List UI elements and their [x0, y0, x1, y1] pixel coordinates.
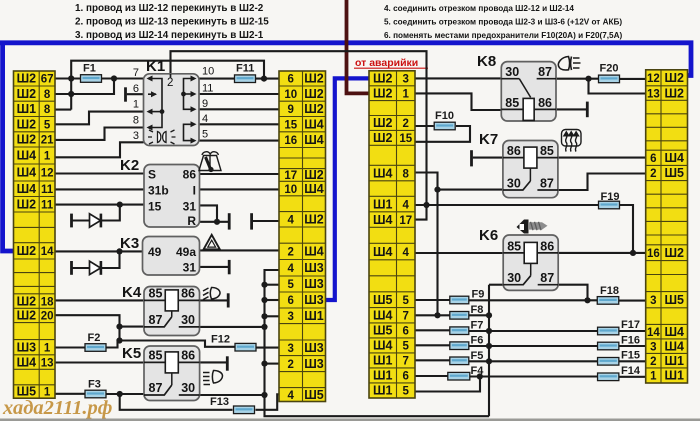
- node bus 5Ш3: [261, 282, 267, 288]
- wire Ш1-7 to F5: [415, 359, 450, 361]
- svg-text:Ш4: Ш4: [373, 308, 393, 322]
- wire branch to K4 pin87: [120, 326, 145, 328]
- svg-text:3: 3: [288, 311, 294, 323]
- fuse F20: [599, 63, 620, 83]
- wire K1 pin4 to 15-Ш4: [199, 123, 279, 125]
- wire Ш2-2 to F10: [415, 125, 434, 127]
- svg-text:Ш4: Ш4: [304, 117, 324, 131]
- svg-text:F13: F13: [210, 396, 229, 408]
- wire K1 pin5 to 16-Ш4: [199, 140, 279, 142]
- node junction K6-87: [584, 297, 590, 303]
- svg-text:31b: 31b: [148, 183, 169, 197]
- svg-text:Ш2: Ш2: [304, 213, 324, 227]
- wire K1 pin10 to F11: [199, 78, 234, 80]
- node junction Ш2-8 bus: [68, 91, 74, 97]
- wire branch to K7 pin30: [438, 189, 504, 191]
- svg-text:11: 11: [41, 199, 54, 211]
- node bus F8: [486, 312, 492, 318]
- svg-text:16: 16: [284, 135, 297, 147]
- svg-text:4: 4: [288, 263, 295, 275]
- svg-text:Ш2: Ш2: [17, 309, 37, 323]
- wire Ш5-1 to F3: [55, 393, 85, 395]
- wire K1 pin11 to 10-Ш2: [199, 93, 279, 95]
- svg-text:Ш5: Ш5: [373, 324, 393, 338]
- wire Ш1-8 to bus: [55, 109, 71, 111]
- relay K3 (turn signal relay): [120, 235, 200, 275]
- svg-text:F14: F14: [621, 365, 641, 377]
- svg-text:Ш2: Ш2: [304, 168, 324, 182]
- svg-text:Ш1: Ш1: [373, 354, 393, 368]
- svg-text:86: 86: [540, 239, 554, 253]
- svg-text:Ш2: Ш2: [304, 72, 324, 86]
- wire K2 pin86 to 17-Ш2: [200, 173, 280, 175]
- svg-text:6: 6: [650, 153, 656, 165]
- svg-text:85: 85: [507, 239, 521, 253]
- svg-text:30: 30: [505, 65, 519, 79]
- relay K1 (ignition/light switch block): [133, 58, 214, 146]
- svg-text:Ш4: Ш4: [664, 325, 684, 339]
- node bus K5-30: [261, 392, 267, 398]
- svg-text:6: 6: [288, 295, 294, 307]
- svg-text:31: 31: [183, 261, 197, 275]
- svg-text:11: 11: [41, 184, 54, 196]
- svg-text:F4: F4: [471, 365, 485, 377]
- svg-text:Ш2: Ш2: [664, 86, 684, 100]
- svg-text:1: 1: [44, 151, 51, 163]
- svg-text:5: 5: [202, 129, 208, 141]
- svg-text:Ш2: Ш2: [373, 116, 393, 130]
- svg-text:14: 14: [41, 246, 54, 258]
- svg-text:6. поменять местами предохрани: 6. поменять местами предохранители F10(2…: [384, 31, 623, 40]
- node junction K4-87 branch: [116, 324, 122, 330]
- svg-text:Ш5: Ш5: [664, 293, 684, 307]
- svg-text:8: 8: [44, 89, 51, 101]
- svg-text:K4: K4: [122, 284, 142, 301]
- terminal contact K2-31 left: [228, 213, 231, 229]
- svg-text:Ш3: Ш3: [304, 357, 324, 371]
- svg-text:11: 11: [202, 83, 213, 95]
- wire bus to 6-Ш3: [265, 299, 280, 301]
- svg-text:3: 3: [650, 295, 656, 307]
- wire F14 to 1-Ш1: [619, 376, 646, 378]
- wire F9 to F18 line: [469, 299, 598, 301]
- svg-text:87: 87: [149, 381, 163, 395]
- svg-text:Ш5: Ш5: [304, 388, 324, 402]
- wire Ш2-14 to K3 pin49: [55, 250, 144, 252]
- node junction F2 line: [116, 337, 122, 343]
- svg-text:49a: 49a: [176, 245, 196, 259]
- fuse F11: [235, 63, 256, 83]
- wire K5 pin86 to contact: [200, 361, 226, 363]
- svg-text:F19: F19: [601, 191, 620, 203]
- svg-text:Ш4: Ш4: [373, 339, 393, 353]
- wire K4 pin86 to contact: [200, 299, 228, 301]
- wire K4 pin30 to bus: [200, 326, 265, 328]
- svg-text:Ш3: Ш3: [304, 341, 324, 355]
- svg-text:K5: K5: [122, 345, 141, 362]
- node junction F20: [585, 76, 591, 82]
- wire Ш2-11 to K2 pin 15: [55, 204, 144, 206]
- svg-text:12: 12: [647, 73, 660, 85]
- wire F20 to 12-Ш2: [619, 78, 646, 80]
- svg-text:2: 2: [650, 168, 656, 180]
- wire Ш4-7 to F8: [415, 314, 450, 316]
- svg-text:K7: K7: [479, 131, 498, 148]
- wire fuse feed bus: [488, 285, 490, 417]
- svg-text:2: 2: [403, 118, 409, 130]
- svg-text:Ш4: Ш4: [373, 245, 393, 259]
- svg-text:85: 85: [149, 348, 163, 362]
- svg-text:86: 86: [181, 348, 195, 362]
- wire blue frame: top horizontal, right drop to Ш2-12, left drop to Ш2-14: [0, 43, 691, 76]
- wire K1 pin9 to 9-Ш2: [199, 108, 279, 110]
- svg-text:18: 18: [41, 296, 54, 308]
- wire K5 pin30 to bus: [200, 394, 265, 396]
- connector block middle-right: [369, 71, 415, 398]
- svg-text:F10: F10: [435, 110, 454, 122]
- fuse F10: [434, 110, 455, 130]
- terminal contact K5-86: [226, 356, 229, 370]
- svg-text:1: 1: [403, 88, 410, 100]
- svg-text:4: 4: [288, 215, 295, 227]
- icon low beam: [203, 287, 220, 299]
- svg-text:I: I: [193, 183, 196, 197]
- fuse F9: [450, 289, 485, 304]
- wire terminal to K7 pin86: [473, 157, 503, 159]
- wire F12 to 3-Ш3: [256, 347, 279, 349]
- svg-text:4: 4: [403, 247, 410, 259]
- svg-text:F15: F15: [621, 350, 640, 362]
- node junction D1: [117, 202, 123, 208]
- wire K7 pin85 to 6-Ш4: [558, 157, 646, 159]
- icon horn: [517, 220, 548, 234]
- svg-text:49: 49: [148, 245, 162, 259]
- svg-text:67: 67: [41, 74, 54, 86]
- svg-text:5. соединить отрезком провода: 5. соединить отрезком провода Ш2-3 и Ш3-…: [384, 18, 622, 27]
- svg-text:20: 20: [41, 311, 54, 323]
- svg-text:Ш4: Ш4: [304, 133, 324, 147]
- svg-text:Ш4: Ш4: [17, 166, 37, 180]
- svg-text:10: 10: [202, 66, 214, 78]
- wire diode D1 branch: [72, 205, 120, 221]
- icon heated rear window: [562, 130, 582, 152]
- node junction K2 31/R: [214, 219, 220, 225]
- svg-text:F16: F16: [621, 334, 640, 346]
- wire Ш1-6 to F4: [415, 375, 448, 377]
- svg-text:2: 2: [288, 247, 294, 259]
- fuse F7: [450, 320, 484, 335]
- svg-text:9: 9: [202, 98, 208, 110]
- svg-text:86: 86: [538, 96, 552, 110]
- svg-text:K1: K1: [146, 58, 165, 75]
- wire bus to 2-Ш3: [265, 363, 280, 365]
- wire F16 to 3-Ш4: [619, 345, 646, 347]
- svg-text:87: 87: [538, 65, 552, 79]
- svg-text:F8: F8: [471, 304, 484, 316]
- wire K8 pin86 to contact: [556, 108, 586, 110]
- svg-text:Ш4: Ш4: [17, 355, 37, 369]
- wire Ш4-13 to K5 pin85: [55, 361, 144, 363]
- wire F17 to 14-Ш4: [619, 330, 646, 332]
- svg-text:Ш2: Ш2: [17, 197, 37, 211]
- svg-text:87: 87: [149, 313, 163, 327]
- wire F13 to 4-Ш5: [256, 394, 280, 410]
- svg-text:Ш1: Ш1: [373, 369, 393, 383]
- svg-text:F2: F2: [88, 332, 101, 344]
- wire Ш2-67 to F1: [55, 77, 80, 79]
- svg-text:16: 16: [647, 248, 660, 260]
- svg-text:1: 1: [133, 99, 139, 111]
- fuse F4: [448, 365, 484, 380]
- svg-text:K6: K6: [479, 227, 498, 244]
- fuse F12: [211, 334, 256, 352]
- svg-text:4: 4: [288, 390, 295, 402]
- svg-text:87: 87: [540, 271, 554, 285]
- terminal contact K3-31: [228, 260, 231, 274]
- fuse F14: [598, 365, 641, 381]
- terminal diode D1 anode terminal: [70, 214, 73, 228]
- wire F7 to F17: [469, 330, 598, 332]
- svg-text:F17: F17: [621, 319, 640, 331]
- svg-text:Ш2: Ш2: [664, 246, 684, 260]
- svg-text:17: 17: [284, 170, 297, 182]
- svg-text:6: 6: [288, 74, 294, 86]
- wire K6 pin86 to 16-Ш2: [558, 252, 646, 254]
- svg-text:1. провод из Ш2-12 перекинуть: 1. провод из Ш2-12 перекинуть в Ш2-2: [75, 3, 264, 14]
- node junction Ш2-67/F1: [68, 75, 74, 81]
- svg-text:F3: F3: [88, 379, 101, 391]
- node junction F8: [434, 312, 440, 318]
- svg-text:13: 13: [41, 357, 54, 369]
- wire F6 to F16: [469, 345, 598, 347]
- svg-text:30: 30: [181, 381, 195, 395]
- svg-text:6: 6: [403, 326, 409, 338]
- net label от аварийки: [354, 57, 428, 69]
- wire bus Ш2-67/Ш2-8/Ш1-8 and jumper to F11 output: [71, 61, 264, 110]
- svg-text:6: 6: [403, 371, 409, 383]
- fuse F16: [598, 334, 640, 350]
- svg-text:3: 3: [403, 74, 409, 86]
- svg-text:86: 86: [181, 286, 195, 300]
- bottom window edge: [0, 419, 700, 421]
- svg-text:15: 15: [399, 133, 412, 145]
- svg-text:17: 17: [399, 215, 412, 227]
- relay K2 (wiper relay): [120, 157, 200, 228]
- relay K8 (high beam relay): [477, 53, 556, 121]
- svg-text:7: 7: [403, 356, 409, 368]
- wire Ш1-4 to F19: [415, 204, 599, 206]
- diode D2: [90, 261, 103, 275]
- wire Ш4-1 to K1 pin3: [55, 142, 144, 157]
- wire F15 to 2-Ш1: [619, 360, 646, 362]
- svg-text:1: 1: [650, 371, 657, 383]
- fuse F19: [599, 191, 620, 209]
- svg-text:87: 87: [540, 177, 554, 191]
- svg-text:86: 86: [507, 144, 521, 158]
- node junction D2: [116, 248, 122, 254]
- svg-text:Ш4: Ш4: [304, 182, 324, 196]
- svg-text:30: 30: [507, 271, 521, 285]
- svg-text:Ш3: Ш3: [304, 261, 324, 275]
- node bus 3Ш1: [261, 313, 267, 319]
- wire Ш2-20 down-jog: [55, 315, 120, 340]
- wire K1 pin2 to Ш4-17 (long top run): [171, 51, 427, 219]
- svg-text:Ш3: Ш3: [304, 277, 324, 291]
- svg-text:2: 2: [288, 359, 294, 371]
- svg-text:K2: K2: [120, 157, 139, 174]
- terminal contact K7-86: [470, 150, 473, 166]
- wire branch to F13: [120, 394, 233, 410]
- node junction 16-Ш2: [630, 250, 636, 256]
- svg-text:4: 4: [202, 113, 208, 125]
- svg-text:30: 30: [181, 313, 195, 327]
- wire Ш4-11 to K2 pin 31b: [55, 188, 144, 190]
- svg-text:Ш5: Ш5: [373, 293, 393, 307]
- relay K4 (low beam relay): [122, 284, 200, 336]
- svg-text:Ш2: Ш2: [17, 87, 37, 101]
- fuse F2: [85, 332, 106, 351]
- wire Ш4-5 to F6: [415, 344, 450, 346]
- svg-text:Ш4: Ш4: [664, 339, 684, 353]
- svg-text:3: 3: [133, 130, 139, 142]
- wire K3 pin31 to contact: [200, 266, 229, 268]
- svg-text:Ш2: Ш2: [17, 117, 37, 131]
- svg-text:10: 10: [284, 184, 297, 196]
- wire bus to 3-Ш1: [265, 315, 280, 317]
- svg-text:Ш2: Ш2: [17, 133, 37, 147]
- svg-text:3: 3: [288, 343, 294, 355]
- svg-text:8: 8: [403, 168, 410, 180]
- wire K6 pin87 down to F18 line: [558, 285, 587, 301]
- svg-text:Ш2: Ш2: [17, 294, 37, 308]
- fuse F15: [598, 350, 640, 366]
- terminal contact to K1 pin6: [124, 87, 127, 101]
- node junction F11 out: [261, 76, 267, 82]
- fuse F18: [597, 285, 619, 304]
- wire K7 pin87 to 2-Ш5: [558, 174, 646, 191]
- wire Ш2-21 to K1 pin8: [55, 128, 144, 140]
- node junction K7-30: [434, 187, 440, 193]
- svg-text:2. провод из Ш2-13 перекинуть: 2. провод из Ш2-13 перекинуть в Ш2-15: [75, 17, 269, 28]
- svg-text:Ш2: Ш2: [373, 131, 393, 145]
- svg-text:8: 8: [44, 104, 51, 116]
- wire Ш5-5 to F9: [415, 299, 450, 301]
- svg-text:Ш1: Ш1: [664, 369, 684, 383]
- icon high beam: [558, 57, 580, 71]
- instruction text lines 4-6: [384, 4, 623, 40]
- svg-text:5: 5: [403, 295, 410, 307]
- fuse F6: [450, 335, 484, 350]
- wire contact to 4-Ш2: [253, 220, 279, 222]
- svg-text:Ш4: Ш4: [373, 213, 393, 227]
- svg-text:85: 85: [540, 144, 554, 158]
- relay K6 (horn relay): [479, 227, 558, 290]
- svg-text:31: 31: [183, 199, 197, 213]
- svg-text:F7: F7: [471, 320, 484, 332]
- svg-text:12: 12: [41, 168, 54, 180]
- svg-text:2: 2: [167, 77, 173, 89]
- wire K2 pin I to 10-Ш4: [200, 188, 280, 190]
- svg-text:Ш2: Ш2: [304, 102, 324, 116]
- wire F19 to junction at 16-Ш2: [620, 205, 634, 253]
- svg-text:K8: K8: [477, 53, 496, 70]
- connector block right: [646, 70, 688, 383]
- wire Ш4-4 to K6 pin85: [415, 252, 503, 254]
- wire F1 to K1 pin7: [102, 77, 144, 79]
- fuse F1: [81, 63, 102, 83]
- svg-text:F12: F12: [211, 334, 230, 346]
- fuse F3: [85, 379, 106, 398]
- wire bus (middle-left distribution): [265, 270, 490, 416]
- wire F2 to F12: [106, 341, 235, 348]
- svg-text:F5: F5: [471, 350, 484, 362]
- svg-text:7: 7: [133, 67, 139, 79]
- svg-text:30: 30: [507, 177, 521, 191]
- instruction text lines 1-3: [75, 3, 269, 41]
- wire bus to 5-Ш3: [265, 284, 280, 286]
- svg-text:9: 9: [288, 104, 294, 116]
- svg-text:15: 15: [284, 119, 297, 131]
- terminal contact K8-86: [586, 102, 589, 118]
- node bus 6Ш3: [261, 297, 267, 303]
- svg-text:14: 14: [647, 327, 660, 339]
- wire terminal to K1 pin6: [127, 93, 144, 95]
- svg-text:13: 13: [647, 88, 660, 100]
- terminal diode D2 anode terminal: [70, 261, 73, 275]
- wire Ш1-5 to F4 output: [415, 377, 480, 392]
- svg-text:Ш5: Ш5: [664, 166, 684, 180]
- node junction F3 out: [117, 391, 123, 397]
- svg-text:F1: F1: [83, 63, 96, 75]
- wire Ш4-12 to K2 pin S: [55, 172, 144, 174]
- connector block left (Ш2/Ш1/Ш4/Ш3/Ш5): [14, 71, 56, 399]
- node junction Ш1-4: [423, 202, 429, 208]
- svg-text:5: 5: [403, 386, 410, 398]
- svg-text:6: 6: [133, 83, 139, 95]
- connector block middle-left: [279, 71, 326, 402]
- svg-text:Ш4: Ш4: [17, 182, 37, 196]
- svg-text:хада2111.рф: хада2111.рф: [2, 397, 112, 419]
- svg-text:8: 8: [133, 115, 139, 127]
- svg-text:1: 1: [44, 342, 51, 354]
- svg-text:4: 4: [403, 199, 410, 211]
- svg-text:Ш3: Ш3: [304, 293, 324, 307]
- wire F8 to bus: [469, 314, 489, 316]
- fuse F13: [210, 396, 255, 414]
- svg-text:F18: F18: [600, 285, 619, 297]
- svg-text:85: 85: [505, 96, 519, 110]
- svg-text:21: 21: [41, 135, 54, 147]
- wire Ш2-8 to F1 output: [55, 79, 114, 95]
- svg-text:R: R: [187, 214, 196, 228]
- svg-text:5: 5: [44, 119, 51, 131]
- relay K5 (fog lamp relay): [122, 345, 200, 401]
- svg-text:Ш3: Ш3: [17, 340, 37, 354]
- svg-text:85: 85: [149, 286, 163, 300]
- svg-text:F9: F9: [472, 289, 485, 301]
- icon fog lamp: [203, 370, 222, 384]
- wire bus to K6 pin30: [489, 284, 503, 286]
- svg-text:K3: K3: [120, 235, 139, 252]
- wire K2 pin31 jog: [200, 205, 218, 221]
- icon hazard triangle: [204, 235, 220, 250]
- svg-text:3. провод из Ш2-14 перекинуть: 3. провод из Ш2-14 перекинуть в Ш2-1: [75, 30, 264, 41]
- terminal contact K2-31 right: [250, 213, 253, 229]
- svg-text:Ш1: Ш1: [373, 384, 393, 398]
- wire branch to 13-Ш2: [589, 79, 646, 94]
- fuse F17: [598, 319, 640, 335]
- wire K3 pin49a to 2-Ш4: [200, 249, 280, 251]
